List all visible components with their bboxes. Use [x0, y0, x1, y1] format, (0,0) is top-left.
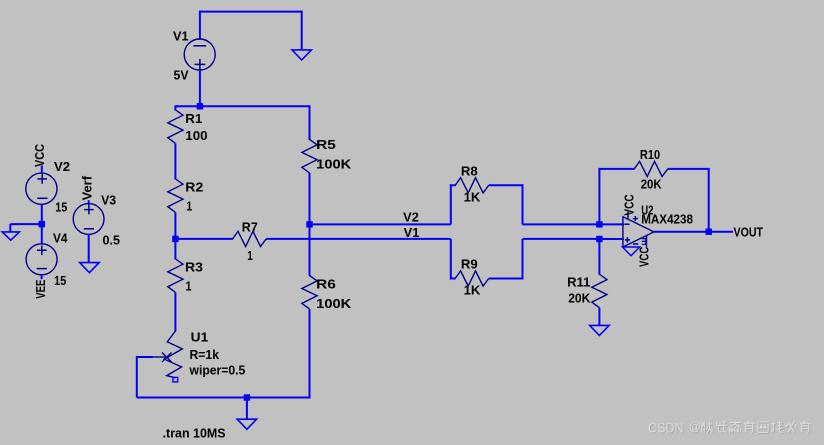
wire R6 to bottom rail — [309, 309, 311, 399]
wire node up to R10 — [598, 169, 600, 225]
wire R10 left lead — [598, 168, 634, 170]
node R7 branch junction — [172, 236, 178, 242]
svg-text:100K: 100K — [316, 297, 351, 311]
wire non-inverting input — [599, 238, 624, 240]
svg-text:R2: R2 — [185, 180, 203, 194]
ground top right — [292, 11, 311, 60]
wire R5 to R6 — [309, 173, 311, 276]
svg-text:R11: R11 — [567, 275, 590, 289]
svg-text:20K: 20K — [568, 292, 590, 306]
svg-text:VCC: VCC — [638, 247, 652, 267]
node output junction — [706, 229, 712, 235]
wire R2 to R3 — [174, 212, 176, 259]
svg-text:R6: R6 — [316, 278, 336, 292]
wire rail to R1 — [174, 105, 176, 110]
wire V2 net — [310, 223, 451, 225]
resistor R11 — [592, 274, 607, 308]
svg-text:100K: 100K — [316, 157, 351, 171]
svg-text:VCC: VCC — [623, 194, 637, 215]
svg-text:1: 1 — [247, 249, 253, 263]
resistor R7 — [233, 231, 267, 246]
svg-text:1: 1 — [186, 200, 192, 214]
wire R7 left — [175, 238, 233, 240]
wire junction to ground left — [10, 223, 42, 225]
wire R10 down to output — [708, 168, 710, 232]
svg-text:@: @ — [689, 422, 701, 434]
svg-text:R8: R8 — [461, 164, 478, 178]
svg-text:15: 15 — [55, 201, 67, 215]
svg-text:V1: V1 — [173, 29, 189, 43]
svg-text:MAX4238: MAX4238 — [641, 212, 693, 226]
wire top rail — [175, 105, 309, 107]
svg-text:R=1k: R=1k — [190, 348, 220, 362]
wire U1 wiper down — [136, 356, 138, 398]
wire V3 to ground — [88, 234, 90, 263]
wire top net from V1 plus to ground — [200, 11, 302, 13]
svg-text:100: 100 — [185, 129, 207, 143]
svg-text:0.5: 0.5 — [103, 234, 121, 248]
wire U1 wiper horizontal — [137, 356, 154, 358]
voltage source V2 — [26, 173, 57, 204]
svg-text:5V: 5V — [174, 69, 190, 83]
wire rail to R5 — [309, 105, 311, 140]
wire V2 to junction — [41, 204, 43, 224]
svg-text:1K: 1K — [464, 284, 481, 298]
svg-text:1K: 1K — [464, 190, 481, 204]
svg-text:CSDN: CSDN — [648, 420, 684, 436]
resistor R1 — [168, 110, 183, 144]
op-amp negative supply flag — [622, 247, 639, 256]
svg-text:U1: U1 — [191, 330, 209, 344]
wire R8 right lead — [489, 184, 523, 186]
svg-text:R1: R1 — [185, 112, 202, 126]
wire R8 down to V2 row — [522, 184, 524, 224]
wire bottom rail — [137, 397, 310, 399]
node supply junction — [39, 221, 45, 227]
svg-text:R5: R5 — [316, 138, 336, 152]
svg-text:wiper=0.5: wiper=0.5 — [189, 364, 246, 378]
voltage source V3 — [73, 204, 104, 235]
svg-text:V4: V4 — [53, 232, 68, 246]
wire junction to V4 — [41, 224, 43, 244]
svg-text:V2: V2 — [54, 160, 70, 174]
wire R8 left lead — [450, 184, 456, 186]
wire V1 bottom to top rail — [199, 70, 201, 106]
resistor R8 — [455, 178, 489, 193]
op-amp U2 body — [623, 212, 654, 248]
svg-text:VOUT: VOUT — [734, 225, 764, 239]
resistor R5 — [302, 139, 317, 173]
node inverting input junction — [596, 221, 602, 227]
wire R9 right lead — [489, 278, 523, 280]
resistor R3 — [168, 259, 183, 293]
svg-text:20K: 20K — [641, 178, 662, 192]
wire R9 left lead — [450, 278, 456, 280]
potentiometer U1 — [153, 331, 182, 382]
wire V2 to op-amp node — [523, 223, 601, 225]
wire output — [654, 231, 733, 233]
svg-text:VCC: VCC — [33, 144, 47, 167]
wire V4 bottom stub — [41, 274, 43, 279]
svg-text:R9: R9 — [461, 258, 478, 272]
wire V1 top stub — [199, 11, 201, 40]
svg-text:VEE: VEE — [34, 280, 48, 299]
wire node down to R11 — [598, 239, 600, 275]
node V2 junction — [306, 221, 312, 227]
wire Verf stub — [88, 200, 90, 205]
wire V2 up to R8 — [450, 184, 452, 224]
wire inverting input — [599, 223, 624, 225]
svg-text:V1: V1 — [404, 226, 420, 240]
node top rail junction — [197, 103, 203, 109]
wire R9 up to V1 row — [522, 239, 524, 280]
svg-text:R7: R7 — [242, 220, 258, 234]
svg-text:1: 1 — [186, 280, 192, 294]
wire VCC stub — [41, 166, 43, 174]
wire V1 to op-amp node — [523, 238, 601, 240]
resistor R2 — [168, 179, 183, 213]
svg-text:R10: R10 — [640, 148, 660, 162]
svg-text:V3: V3 — [101, 194, 116, 208]
resistor R6 — [302, 276, 317, 310]
node bottom ground junction — [244, 394, 250, 400]
svg-text:V2: V2 — [403, 211, 419, 225]
watermark CSDN — [648, 420, 812, 437]
svg-text:Verf: Verf — [81, 175, 95, 200]
ground under V3 — [80, 263, 99, 273]
wire V1 net — [266, 238, 451, 240]
resistor R10 — [634, 161, 668, 176]
voltage source V1 — [184, 39, 215, 70]
node non-inverting input junction — [596, 236, 602, 242]
resistor R9 — [455, 271, 489, 286]
wire R10 right lead — [668, 168, 709, 170]
wire R1 to R2 — [174, 143, 176, 179]
svg-text:.tran 10MS: .tran 10MS — [163, 426, 226, 440]
ground under R11 — [590, 308, 609, 336]
ground left — [2, 224, 19, 240]
svg-text:15: 15 — [54, 274, 66, 288]
ground bottom — [237, 398, 256, 430]
svg-text:R3: R3 — [185, 261, 203, 275]
voltage source V4 — [26, 244, 57, 275]
wire R3 to U1 — [174, 292, 176, 331]
wire V1 down to R9 — [450, 239, 452, 280]
